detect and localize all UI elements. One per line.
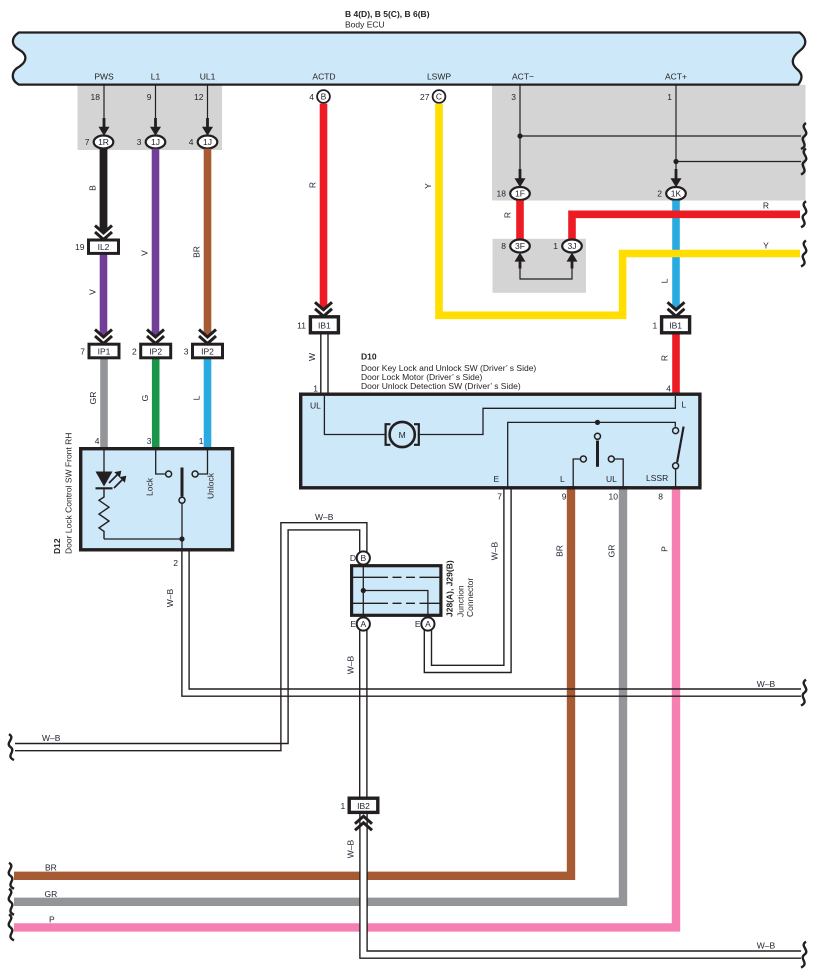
svg-text:W–B: W–B	[490, 541, 500, 560]
svg-text:18: 18	[91, 92, 101, 102]
chevron arrow into IP2 a	[147, 330, 164, 344]
svg-text:ACT−: ACT−	[512, 72, 534, 82]
svg-text:P: P	[49, 914, 55, 924]
svg-text:C: C	[436, 92, 442, 102]
svg-text:B: B	[88, 185, 98, 191]
svg-text:L: L	[682, 400, 687, 410]
svg-text:3: 3	[184, 346, 189, 356]
svg-text:1R: 1R	[98, 137, 109, 147]
svg-text:E: E	[415, 619, 421, 629]
LED light arrows	[109, 473, 119, 483]
svg-text:2: 2	[132, 346, 137, 356]
connector circle B	[317, 90, 330, 103]
svg-text:W–B: W–B	[757, 679, 776, 689]
svg-text:18: 18	[497, 189, 507, 199]
svg-text:1: 1	[553, 241, 558, 251]
svg-text:4: 4	[189, 137, 194, 147]
svg-text:IP1: IP1	[98, 346, 111, 356]
wire BR brown 1J to IP2	[204, 149, 212, 336]
svg-text:1: 1	[652, 320, 657, 330]
motor M	[386, 424, 391, 445]
wire W-B IB2 to bottom right break black layer	[364, 812, 802, 955]
wire BR brown D10 L pin to left break	[14, 486, 571, 876]
svg-text:1J: 1J	[203, 137, 212, 147]
connector box IB1 left	[310, 317, 338, 333]
svg-text:J28(A), J29(B): J28(A), J29(B)	[445, 560, 455, 617]
svg-text:4: 4	[95, 436, 100, 446]
junction connector box border	[352, 566, 441, 616]
wire W-B IB2 to bottom right break white layer	[364, 812, 802, 955]
svg-text:3: 3	[147, 436, 152, 446]
svg-text:GR: GR	[88, 392, 98, 405]
connector box IB1 right	[662, 317, 690, 333]
svg-text:9: 9	[147, 92, 152, 102]
connector oval 3F	[510, 240, 530, 253]
junction connector interior wires	[362, 566, 364, 615]
svg-text:M: M	[399, 430, 406, 440]
svg-text:9: 9	[562, 492, 567, 502]
svg-text:3: 3	[137, 137, 142, 147]
svg-text:ACTD: ACTD	[312, 72, 335, 82]
svg-text:D: D	[350, 553, 356, 563]
chevron arrow into IB1 left	[315, 302, 332, 316]
connector box IL2	[89, 240, 119, 253]
svg-text:12: 12	[194, 92, 204, 102]
wire G green IP2 to D12	[152, 358, 160, 448]
svg-text:Y: Y	[763, 241, 769, 251]
svg-text:W–B: W–B	[757, 941, 776, 951]
svg-text:D12: D12	[52, 538, 62, 554]
junction connector box fill	[352, 566, 441, 616]
svg-text:8: 8	[501, 241, 506, 251]
D10 LSSR switch	[673, 428, 679, 434]
svg-text:8: 8	[658, 492, 663, 502]
wire W ACTD IB1 to D10	[320, 333, 322, 395]
junction connector circle A right	[421, 617, 434, 630]
svg-text:1F: 1F	[515, 189, 525, 199]
wire V purple IL2 to IP1	[100, 253, 108, 336]
wire P pink D10 LSSR pin to left break	[14, 486, 676, 927]
svg-text:V: V	[88, 289, 98, 295]
svg-text:10: 10	[609, 492, 619, 502]
D10 key switch movable contact	[595, 433, 601, 439]
D10 interior wire E line	[508, 422, 676, 487]
wire R red 1F to 3F	[516, 201, 524, 241]
svg-text:7: 7	[85, 137, 90, 147]
svg-text:R: R	[503, 212, 513, 218]
D10 interior wire UL to motor	[324, 396, 386, 435]
svg-text:D10: D10	[361, 352, 377, 362]
D10 key switch UL contact	[608, 456, 614, 462]
chevron arrow into IB1 right	[668, 302, 685, 316]
wire GR gray IP1 to D12	[100, 358, 108, 448]
svg-text:L1: L1	[151, 72, 161, 82]
svg-text:IP2: IP2	[201, 346, 214, 356]
connector oval 3J	[562, 240, 582, 253]
svg-text:11: 11	[297, 320, 306, 330]
break symbols right edge	[801, 123, 806, 968]
wire B black from 1R to IL2	[100, 149, 108, 232]
svg-text:3F: 3F	[515, 241, 525, 251]
svg-text:IP2: IP2	[149, 346, 162, 356]
svg-text:P: P	[660, 546, 670, 552]
D12 movable contact	[181, 468, 184, 497]
svg-text:19: 19	[75, 242, 85, 252]
wire W-B left break to junction B	[15, 523, 367, 751]
svg-text:Junction: Junction	[456, 585, 466, 617]
svg-text:ACT+: ACT+	[665, 72, 687, 82]
svg-text:L: L	[560, 474, 565, 484]
connector box IP1	[89, 344, 119, 358]
svg-text:R: R	[660, 355, 670, 361]
svg-text:Door Unlock Detection SW (Driv: Door Unlock Detection SW (Driver’ s Side…	[361, 381, 521, 391]
svg-text:W–B: W–B	[346, 839, 356, 858]
svg-text:Y: Y	[423, 183, 433, 189]
wire R red below IB1 right into D10	[672, 333, 680, 394]
branch wire to right break 1	[520, 135, 801, 137]
connector oval 1F	[510, 187, 530, 200]
svg-text:LSWP: LSWP	[427, 72, 451, 82]
chevron arrow into IP2 b	[199, 330, 216, 344]
svg-text:W–B: W–B	[346, 655, 356, 674]
svg-text:PWS: PWS	[94, 72, 114, 82]
svg-text:UL1: UL1	[200, 72, 216, 82]
svg-text:G: G	[140, 395, 150, 402]
svg-text:B 4(D), B 5(C), B 6(B): B 4(D), B 5(C), B 6(B)	[345, 9, 430, 19]
svg-text:W–B: W–B	[42, 733, 61, 743]
svg-text:2: 2	[173, 558, 178, 568]
svg-text:27: 27	[420, 92, 430, 102]
D12 box border	[81, 449, 233, 550]
shaded region right actuator block	[492, 85, 806, 201]
svg-text:L: L	[192, 395, 202, 400]
svg-text:IB1: IB1	[318, 320, 331, 330]
stem PWS	[103, 84, 105, 121]
svg-text:E: E	[350, 619, 356, 629]
svg-text:IL2: IL2	[98, 242, 110, 252]
junction connector circle B	[357, 551, 370, 564]
stem UL1	[207, 84, 209, 121]
svg-text:BR: BR	[45, 863, 57, 873]
junction connector interior bus 1	[353, 576, 440, 578]
svg-text:Body ECU: Body ECU	[345, 20, 385, 30]
wire L blue from 1K to IB1	[672, 201, 680, 310]
svg-text:3: 3	[511, 92, 516, 102]
D10 key switch L contact	[580, 456, 586, 462]
svg-text:GR: GR	[45, 889, 58, 899]
svg-text:B: B	[360, 553, 366, 563]
connector box IP2 b	[193, 344, 223, 358]
branch wire to right break 2	[676, 161, 801, 163]
svg-text:1: 1	[199, 436, 204, 446]
svg-text:1: 1	[340, 801, 345, 811]
wire W-B junction A to IB2	[359, 630, 361, 800]
wire W-B D12 pin2 to right break	[182, 551, 801, 696]
Body ECU band	[13, 33, 806, 85]
svg-text:Door Lock Control SW Front RH: Door Lock Control SW Front RH	[64, 433, 74, 554]
wire Y yellow LSWP	[439, 104, 800, 316]
wire R red ACTD to IB1	[320, 104, 328, 309]
svg-text:IB1: IB1	[669, 320, 682, 330]
stem ACT- with branch	[519, 84, 521, 173]
svg-text:7: 7	[80, 346, 85, 356]
svg-text:1: 1	[313, 384, 318, 394]
svg-text:W: W	[307, 353, 317, 361]
chevron arrow into IL2	[95, 226, 685, 831]
D10 junction dot	[595, 420, 600, 425]
connector box IP2 a	[141, 344, 171, 358]
connector oval 1J b	[198, 136, 218, 149]
svg-text:L: L	[660, 278, 670, 283]
D12 unlock contact	[199, 449, 208, 474]
wire R red from 3J to right break	[572, 214, 800, 239]
svg-text:R: R	[763, 201, 769, 211]
svg-text:BR: BR	[555, 545, 565, 557]
svg-text:V: V	[140, 250, 150, 256]
D12 interior common wire	[104, 539, 182, 550]
D12 interior LED wire	[103, 449, 105, 472]
D10 box border	[301, 394, 700, 488]
svg-text:E: E	[494, 474, 500, 484]
svg-text:A: A	[360, 619, 366, 629]
svg-text:7: 7	[497, 492, 502, 502]
svg-text:4: 4	[309, 92, 314, 102]
wire V purple 1J to IP2	[152, 149, 160, 336]
svg-text:UL: UL	[606, 474, 617, 484]
svg-text:R: R	[308, 182, 318, 188]
connector oval 1J a	[146, 136, 166, 149]
LED	[96, 472, 113, 487]
svg-text:B: B	[321, 92, 327, 102]
connector box IB2	[349, 798, 378, 812]
wire W-B junction A to D10 E	[424, 489, 511, 673]
svg-text:Unlock: Unlock	[206, 472, 216, 499]
D10 interior wire motor to L pin	[419, 396, 676, 435]
svg-text:IB2: IB2	[357, 801, 370, 811]
chevron arrow into IP1	[95, 330, 112, 344]
D10 box fill	[301, 394, 700, 488]
svg-text:4: 4	[666, 384, 671, 394]
wire L blue IP2 to D12	[204, 358, 212, 448]
svg-text:UL: UL	[310, 401, 321, 411]
svg-text:W–B: W–B	[315, 512, 334, 522]
svg-text:1K: 1K	[671, 189, 682, 199]
D12 lock contact	[156, 449, 166, 474]
svg-text:1: 1	[667, 92, 672, 102]
svg-text:1J: 1J	[151, 137, 160, 147]
wire GR gray D10 UL pin to left break	[14, 486, 623, 902]
junction connector circle A left	[357, 617, 370, 630]
shaded region left connector block	[78, 85, 223, 150]
break symbols left edge	[9, 734, 14, 940]
3F 3J jumper bracket	[520, 268, 572, 280]
svg-text:Lock: Lock	[145, 477, 155, 496]
resistor R	[99, 489, 109, 539]
svg-text:A: A	[425, 619, 431, 629]
svg-text:GR: GR	[607, 545, 617, 558]
shaded region 3F 3J block	[493, 239, 587, 293]
connector oval 1K	[666, 187, 686, 200]
svg-text:LSSR: LSSR	[646, 473, 668, 483]
svg-text:2: 2	[657, 189, 662, 199]
connector oval 1R	[94, 136, 114, 149]
wire code labels rotated	[88, 182, 670, 858]
stem L1	[155, 84, 157, 121]
svg-text:3J: 3J	[568, 241, 577, 251]
svg-text:Connector: Connector	[465, 578, 475, 617]
stem ACT+ with branch	[675, 84, 677, 173]
svg-text:BR: BR	[192, 246, 202, 258]
junction connector interior bus 2	[353, 602, 440, 604]
connector circle C	[433, 90, 446, 103]
svg-text:W–B: W–B	[165, 588, 175, 607]
chevron arrow into IB2 upward	[355, 816, 372, 830]
D12 box fill	[81, 449, 233, 550]
